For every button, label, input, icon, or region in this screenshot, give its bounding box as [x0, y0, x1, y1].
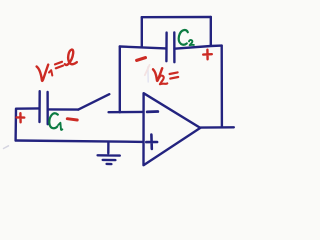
wire: open diagonal toward inverting node: [78, 94, 109, 109]
polarity + at V1 source: [17, 113, 25, 122]
ground: [98, 142, 120, 164]
capacitor C1 right plate: [46, 92, 49, 124]
label V2 =: [153, 68, 162, 81]
wire: feedback right drop: [210, 17, 212, 46]
faint erased stroke near op-amp: [4, 65, 150, 149]
wire: C1 right lead: [49, 108, 79, 111]
wire: op-amp output: [200, 126, 234, 129]
polarity + at C2 right: [203, 50, 212, 60]
wire: bottom rail to non-inverting input: [16, 141, 144, 142]
wire: C2 left lead: [120, 47, 166, 49]
op-amp U1 non-inverting input marker: [146, 135, 157, 149]
capacitor C2 right plate: [173, 32, 175, 62]
capacitor C2 left plate: [165, 33, 168, 62]
polarity - at C2 left: [137, 58, 146, 61]
label C2: [179, 30, 188, 45]
wire: feedback riser: [141, 17, 143, 47]
op-amp U1 inverting input marker: [147, 110, 158, 113]
wire: inverting input lead: [109, 111, 143, 114]
capacitor C1 left plate: [38, 91, 41, 122]
label C1: [49, 113, 58, 128]
polarity - after C1: [67, 119, 77, 120]
op-amp U1: [144, 93, 201, 165]
wire: feedback top: [142, 16, 211, 19]
wire: input loop left vertical and top lead to C1: [16, 108, 39, 140]
label V1 = e: [37, 65, 49, 81]
wire: feedback vertical to output: [220, 46, 223, 128]
wire: C2 right lead: [175, 46, 222, 49]
wire: node A vertical (inverting node up to C2 branch): [119, 47, 121, 113]
